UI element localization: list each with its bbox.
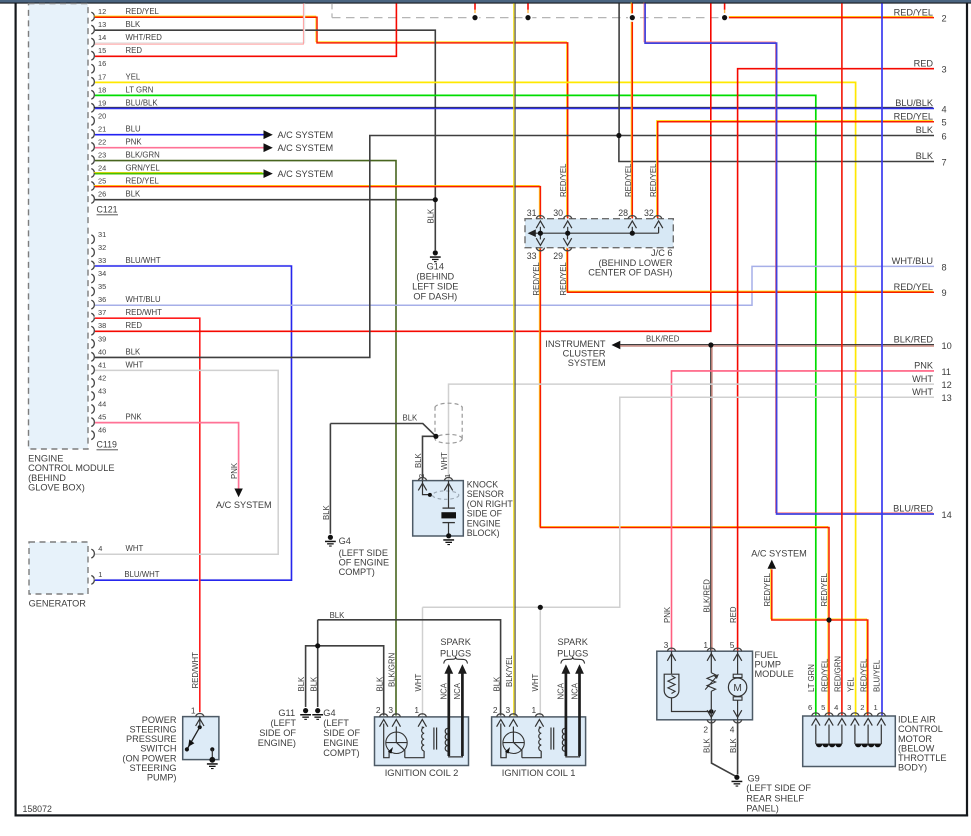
svg-text:POWER: POWER bbox=[142, 715, 177, 725]
svg-text:33: 33 bbox=[98, 256, 106, 265]
svg-text:BLK: BLK bbox=[916, 125, 934, 135]
svg-text:CONTROL: CONTROL bbox=[898, 724, 943, 734]
svg-text:RED: RED bbox=[729, 606, 738, 623]
svg-text:RED/GRN: RED/GRN bbox=[833, 656, 842, 692]
svg-text:BLK: BLK bbox=[375, 676, 384, 692]
svg-text:COMPT): COMPT) bbox=[339, 567, 375, 577]
svg-text:4: 4 bbox=[942, 104, 947, 114]
svg-text:LT GRN: LT GRN bbox=[126, 85, 154, 94]
svg-text:WHT: WHT bbox=[414, 674, 423, 692]
svg-text:BLU/RED: BLU/RED bbox=[893, 504, 933, 514]
svg-text:30: 30 bbox=[553, 208, 563, 218]
svg-text:4: 4 bbox=[730, 724, 735, 734]
svg-text:GRN/YEL: GRN/YEL bbox=[126, 163, 161, 172]
svg-text:G9: G9 bbox=[748, 774, 760, 784]
svg-text:RED: RED bbox=[914, 58, 934, 68]
svg-text:OF DASH): OF DASH) bbox=[413, 292, 457, 302]
svg-text:BLK: BLK bbox=[427, 208, 436, 224]
svg-text:14: 14 bbox=[98, 33, 106, 42]
svg-text:A/C SYSTEM: A/C SYSTEM bbox=[216, 500, 272, 510]
svg-text:19: 19 bbox=[98, 98, 106, 107]
svg-text:12: 12 bbox=[942, 380, 952, 390]
svg-text:SPARK: SPARK bbox=[440, 637, 471, 647]
svg-text:PNK: PNK bbox=[914, 361, 934, 371]
svg-text:C121: C121 bbox=[97, 205, 118, 215]
svg-text:10: 10 bbox=[942, 341, 952, 351]
svg-text:BLK: BLK bbox=[729, 737, 738, 753]
svg-text:(LEFT SIDE: (LEFT SIDE bbox=[339, 548, 388, 558]
svg-text:24: 24 bbox=[98, 163, 106, 172]
svg-text:SENSOR: SENSOR bbox=[467, 489, 504, 499]
svg-text:2: 2 bbox=[493, 705, 498, 715]
svg-text:CONTROL MODULE: CONTROL MODULE bbox=[28, 463, 114, 473]
svg-text:RED/YEL: RED/YEL bbox=[559, 262, 568, 296]
svg-text:34: 34 bbox=[98, 269, 106, 278]
svg-text:28: 28 bbox=[618, 208, 628, 218]
svg-text:BLK/RED: BLK/RED bbox=[894, 335, 934, 345]
svg-text:(LEFT SIDE OF: (LEFT SIDE OF bbox=[746, 783, 811, 793]
svg-text:COMPT): COMPT) bbox=[323, 748, 359, 758]
svg-text:PNK: PNK bbox=[663, 606, 672, 623]
svg-text:RED: RED bbox=[126, 321, 143, 330]
svg-text:37: 37 bbox=[98, 308, 106, 317]
svg-text:SIDE OF: SIDE OF bbox=[467, 509, 503, 519]
svg-text:BODY): BODY) bbox=[898, 763, 927, 773]
svg-text:A/C SYSTEM: A/C SYSTEM bbox=[751, 549, 807, 559]
svg-text:ENGINE: ENGINE bbox=[467, 518, 501, 528]
svg-text:WHT/RED: WHT/RED bbox=[126, 33, 163, 42]
svg-text:5: 5 bbox=[821, 703, 825, 712]
svg-text:IDLE AIR: IDLE AIR bbox=[898, 715, 936, 725]
svg-text:ENGINE: ENGINE bbox=[28, 453, 63, 463]
svg-text:18: 18 bbox=[98, 85, 106, 94]
svg-text:SWITCH: SWITCH bbox=[140, 744, 176, 754]
svg-text:FUEL: FUEL bbox=[755, 650, 779, 660]
svg-text:SIDE OF: SIDE OF bbox=[259, 728, 296, 738]
svg-text:4: 4 bbox=[834, 703, 838, 712]
svg-text:BLU/BLK: BLU/BLK bbox=[126, 98, 159, 107]
svg-text:2: 2 bbox=[703, 724, 708, 734]
svg-text:23: 23 bbox=[98, 150, 106, 159]
svg-text:RED/WHT: RED/WHT bbox=[126, 308, 163, 317]
svg-text:RED/YEL: RED/YEL bbox=[820, 572, 829, 606]
svg-text:GLOVE BOX): GLOVE BOX) bbox=[28, 483, 85, 493]
svg-text:SYSTEM: SYSTEM bbox=[568, 358, 606, 368]
svg-text:26: 26 bbox=[98, 190, 106, 199]
svg-text:INSTRUMENT: INSTRUMENT bbox=[545, 339, 606, 349]
svg-text:RED/WHT: RED/WHT bbox=[191, 652, 200, 689]
svg-text:BLK: BLK bbox=[126, 190, 142, 199]
svg-text:9: 9 bbox=[942, 288, 947, 298]
svg-text:PANEL): PANEL) bbox=[746, 804, 779, 814]
svg-text:43: 43 bbox=[98, 387, 106, 396]
svg-text:MOTOR: MOTOR bbox=[898, 734, 932, 744]
svg-text:15: 15 bbox=[98, 46, 106, 55]
svg-text:CLUSTER: CLUSTER bbox=[563, 349, 606, 359]
svg-text:16: 16 bbox=[98, 59, 106, 68]
svg-text:31: 31 bbox=[98, 230, 106, 239]
svg-text:14: 14 bbox=[942, 510, 952, 520]
svg-text:WHT: WHT bbox=[126, 360, 144, 369]
svg-text:36: 36 bbox=[98, 295, 106, 304]
svg-text:SPARK: SPARK bbox=[557, 637, 588, 647]
svg-text:PUMP): PUMP) bbox=[147, 773, 177, 783]
svg-text:A/C SYSTEM: A/C SYSTEM bbox=[278, 130, 334, 140]
svg-text:PRESSURE: PRESSURE bbox=[126, 734, 177, 744]
svg-text:REAR SHELF: REAR SHELF bbox=[746, 793, 804, 803]
svg-text:YEL: YEL bbox=[846, 677, 855, 692]
svg-text:BLU/WHT: BLU/WHT bbox=[124, 570, 159, 579]
svg-text:RED/YEL: RED/YEL bbox=[894, 7, 933, 17]
svg-text:BLU/WHT: BLU/WHT bbox=[126, 256, 161, 265]
svg-text:RED/YEL: RED/YEL bbox=[894, 282, 933, 292]
svg-text:RED/YEL: RED/YEL bbox=[894, 111, 933, 121]
svg-text:PNK: PNK bbox=[230, 462, 239, 479]
svg-text:2: 2 bbox=[376, 705, 381, 715]
svg-text:3: 3 bbox=[506, 705, 511, 715]
svg-text:(BEHIND LOWER: (BEHIND LOWER bbox=[598, 258, 672, 268]
svg-text:BLK: BLK bbox=[126, 20, 142, 29]
svg-text:WHT: WHT bbox=[531, 674, 540, 692]
svg-text:BLK/RED: BLK/RED bbox=[646, 334, 680, 343]
svg-text:BLU/BLK: BLU/BLK bbox=[895, 98, 934, 108]
svg-text:2: 2 bbox=[860, 703, 864, 712]
svg-text:SIDE OF: SIDE OF bbox=[323, 728, 360, 738]
svg-text:G11: G11 bbox=[278, 708, 295, 718]
svg-text:45: 45 bbox=[98, 413, 106, 422]
svg-text:32: 32 bbox=[98, 243, 106, 252]
svg-text:44: 44 bbox=[98, 400, 106, 409]
svg-text:3: 3 bbox=[388, 705, 393, 715]
svg-text:13: 13 bbox=[98, 20, 106, 29]
svg-text:21: 21 bbox=[98, 124, 106, 133]
svg-text:1: 1 bbox=[98, 570, 102, 579]
svg-text:7: 7 bbox=[942, 158, 947, 168]
svg-text:6: 6 bbox=[808, 703, 812, 712]
svg-text:40: 40 bbox=[98, 347, 106, 356]
svg-text:1: 1 bbox=[414, 705, 419, 715]
svg-text:BLK: BLK bbox=[309, 676, 318, 692]
svg-text:KNOCK: KNOCK bbox=[467, 480, 498, 490]
svg-text:29: 29 bbox=[553, 251, 563, 261]
svg-text:WHT/BLU: WHT/BLU bbox=[892, 256, 933, 266]
svg-text:2: 2 bbox=[417, 474, 426, 478]
svg-text:A/C SYSTEM: A/C SYSTEM bbox=[278, 143, 334, 153]
svg-text:3: 3 bbox=[942, 65, 947, 75]
svg-text:25: 25 bbox=[98, 176, 106, 185]
svg-text:2: 2 bbox=[942, 14, 947, 24]
svg-text:12: 12 bbox=[98, 7, 106, 16]
svg-text:BLK: BLK bbox=[916, 151, 934, 161]
svg-text:(LEFT: (LEFT bbox=[323, 718, 349, 728]
svg-text:STEERING: STEERING bbox=[130, 725, 177, 735]
svg-text:BLK/RED: BLK/RED bbox=[703, 579, 712, 613]
svg-text:A/C SYSTEM: A/C SYSTEM bbox=[278, 169, 334, 179]
svg-text:3: 3 bbox=[664, 640, 669, 650]
svg-text:GENERATOR: GENERATOR bbox=[29, 598, 87, 608]
svg-text:BLK/GRN: BLK/GRN bbox=[388, 653, 397, 687]
svg-text:41: 41 bbox=[98, 360, 106, 369]
svg-text:RED/YEL: RED/YEL bbox=[624, 163, 633, 197]
svg-text:WHT: WHT bbox=[912, 374, 933, 384]
svg-text:BLU/YEL: BLU/YEL bbox=[873, 659, 882, 692]
svg-text:RED/YEL: RED/YEL bbox=[532, 262, 541, 296]
svg-text:1: 1 bbox=[191, 706, 196, 716]
svg-text:PNK: PNK bbox=[126, 137, 143, 146]
svg-text:(ON POWER: (ON POWER bbox=[122, 753, 176, 763]
svg-text:LEFT SIDE: LEFT SIDE bbox=[412, 282, 458, 292]
svg-text:NCA: NCA bbox=[557, 682, 566, 699]
svg-text:PNK: PNK bbox=[126, 413, 143, 422]
svg-text:PLUGS: PLUGS bbox=[557, 649, 588, 659]
svg-text:BLK: BLK bbox=[322, 504, 331, 520]
svg-text:BLK: BLK bbox=[703, 737, 712, 753]
svg-text:NCA: NCA bbox=[570, 682, 579, 699]
svg-text:IGNITION COIL 2: IGNITION COIL 2 bbox=[385, 767, 459, 778]
svg-text:RED/YEL: RED/YEL bbox=[649, 163, 658, 197]
svg-text:RED/YEL: RED/YEL bbox=[559, 163, 568, 197]
svg-text:WHT: WHT bbox=[440, 452, 449, 470]
svg-text:BLK: BLK bbox=[403, 413, 419, 422]
svg-text:13: 13 bbox=[942, 393, 952, 403]
svg-text:OF ENGINE: OF ENGINE bbox=[339, 557, 390, 567]
svg-text:BLOCK): BLOCK) bbox=[467, 528, 500, 538]
svg-text:BLK: BLK bbox=[297, 676, 306, 692]
svg-text:RED/YEL: RED/YEL bbox=[126, 7, 160, 16]
svg-text:22: 22 bbox=[98, 137, 106, 146]
svg-text:THROTTLE: THROTTLE bbox=[898, 753, 947, 763]
svg-text:PLUGS: PLUGS bbox=[440, 649, 471, 659]
svg-text:1: 1 bbox=[532, 705, 537, 715]
svg-text:NCA: NCA bbox=[453, 682, 462, 699]
svg-text:38: 38 bbox=[98, 321, 106, 330]
svg-text:3: 3 bbox=[847, 703, 851, 712]
svg-text:WHT: WHT bbox=[912, 387, 933, 397]
svg-text:NCA: NCA bbox=[440, 682, 449, 699]
svg-text:WHT: WHT bbox=[126, 544, 144, 553]
svg-text:G4: G4 bbox=[323, 708, 335, 718]
svg-text:YEL: YEL bbox=[126, 72, 141, 81]
svg-text:(BELOW: (BELOW bbox=[898, 743, 935, 753]
svg-text:RED/YEL: RED/YEL bbox=[763, 572, 772, 606]
svg-text:1: 1 bbox=[703, 640, 708, 650]
svg-text:1: 1 bbox=[873, 703, 877, 712]
svg-text:IGNITION COIL 1: IGNITION COIL 1 bbox=[502, 767, 576, 778]
svg-text:RED/YEL: RED/YEL bbox=[126, 176, 160, 185]
svg-text:1: 1 bbox=[443, 474, 452, 478]
svg-text:39: 39 bbox=[98, 334, 106, 343]
svg-text:8: 8 bbox=[942, 262, 947, 272]
svg-text:RED/YEL: RED/YEL bbox=[860, 658, 869, 692]
svg-text:BLK: BLK bbox=[492, 676, 501, 692]
svg-text:LT GRN: LT GRN bbox=[807, 664, 816, 692]
svg-text:(ON RIGHT: (ON RIGHT bbox=[467, 499, 514, 509]
svg-text:20: 20 bbox=[98, 111, 106, 120]
svg-text:G14: G14 bbox=[427, 262, 444, 272]
svg-text:46: 46 bbox=[98, 426, 106, 435]
svg-text:RED: RED bbox=[126, 46, 143, 55]
svg-text:BLK/YEL: BLK/YEL bbox=[505, 655, 514, 687]
svg-text:J/C 6: J/C 6 bbox=[651, 248, 672, 258]
svg-text:BLU: BLU bbox=[126, 124, 142, 133]
svg-text:35: 35 bbox=[98, 282, 106, 291]
svg-text:158072: 158072 bbox=[23, 804, 52, 814]
svg-text:M: M bbox=[733, 683, 742, 694]
svg-text:6: 6 bbox=[942, 132, 947, 142]
svg-text:MODULE: MODULE bbox=[755, 669, 794, 679]
svg-text:(LEFT: (LEFT bbox=[270, 718, 296, 728]
svg-text:STEERING: STEERING bbox=[130, 763, 177, 773]
svg-text:WHT/BLU: WHT/BLU bbox=[126, 295, 161, 304]
svg-text:CENTER OF DASH): CENTER OF DASH) bbox=[588, 268, 672, 278]
svg-text:BLK: BLK bbox=[330, 611, 346, 620]
svg-text:32: 32 bbox=[644, 208, 654, 218]
svg-text:ENGINE: ENGINE bbox=[323, 738, 358, 748]
svg-text:31: 31 bbox=[527, 208, 537, 218]
svg-text:(BEHIND: (BEHIND bbox=[28, 473, 66, 483]
svg-text:BLK: BLK bbox=[126, 347, 142, 356]
svg-text:C119: C119 bbox=[97, 440, 117, 450]
svg-text:ENGINE): ENGINE) bbox=[258, 738, 296, 748]
svg-text:17: 17 bbox=[98, 72, 106, 81]
svg-text:PUMP: PUMP bbox=[755, 659, 782, 669]
svg-text:RED/YEL: RED/YEL bbox=[820, 658, 829, 692]
svg-text:5: 5 bbox=[942, 118, 947, 128]
svg-text:11: 11 bbox=[942, 367, 952, 377]
svg-text:BLK: BLK bbox=[414, 452, 423, 468]
svg-text:5: 5 bbox=[730, 640, 735, 650]
svg-text:BLK/GRN: BLK/GRN bbox=[126, 150, 160, 159]
svg-text:33: 33 bbox=[527, 251, 537, 261]
svg-text:G4: G4 bbox=[339, 536, 351, 546]
svg-text:4: 4 bbox=[98, 544, 102, 553]
svg-text:(BEHIND: (BEHIND bbox=[416, 272, 454, 282]
svg-text:42: 42 bbox=[98, 373, 106, 382]
